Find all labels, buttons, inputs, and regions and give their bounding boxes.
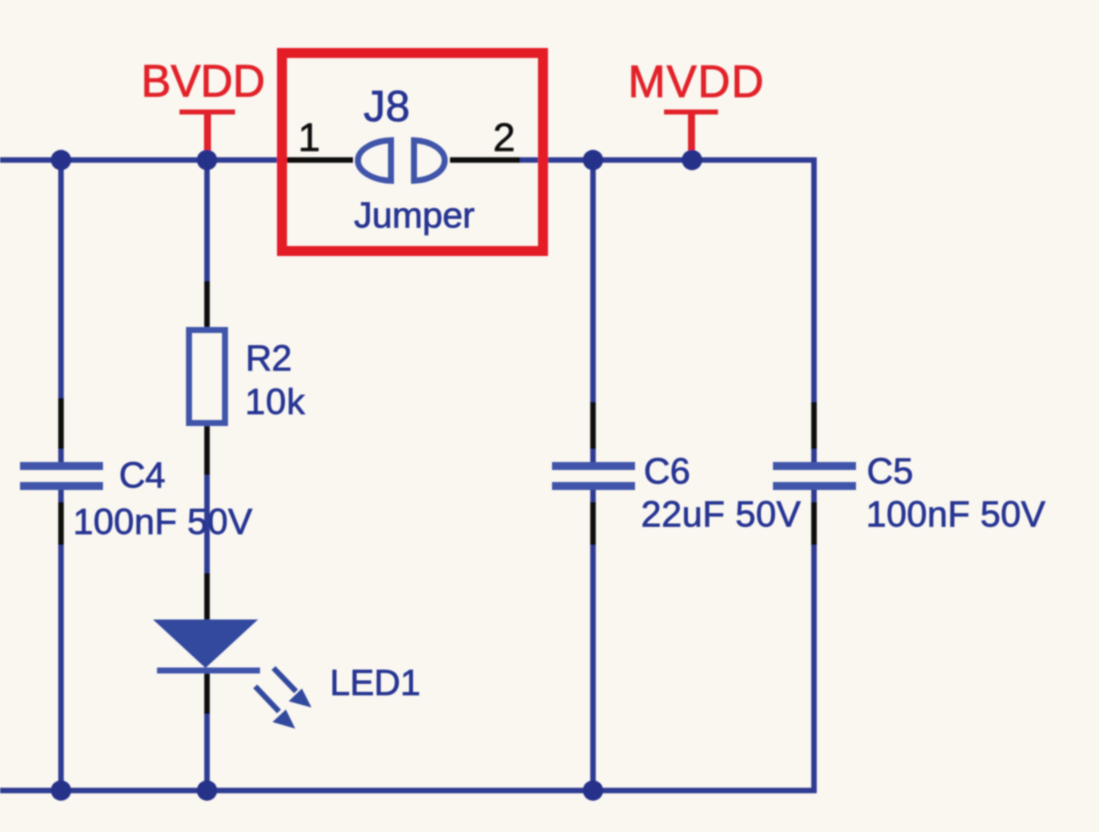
svg-text:Jumper: Jumper bbox=[354, 195, 475, 236]
svg-text:10k: 10k bbox=[245, 381, 306, 422]
svg-text:C5: C5 bbox=[867, 451, 913, 492]
svg-text:R2: R2 bbox=[246, 338, 292, 379]
svg-text:MVDD: MVDD bbox=[628, 56, 765, 107]
svg-text:J8: J8 bbox=[364, 82, 410, 131]
svg-text:22uF 50V: 22uF 50V bbox=[641, 494, 801, 535]
svg-text:100nF 50V: 100nF 50V bbox=[866, 494, 1046, 535]
svg-text:C4: C4 bbox=[119, 454, 165, 495]
svg-text:1: 1 bbox=[298, 116, 320, 160]
svg-text:2: 2 bbox=[493, 116, 515, 160]
svg-text:100nF 50V: 100nF 50V bbox=[73, 501, 253, 542]
svg-text:BVDD: BVDD bbox=[141, 56, 265, 107]
svg-text:LED1: LED1 bbox=[330, 662, 421, 703]
svg-text:C6: C6 bbox=[644, 451, 690, 492]
